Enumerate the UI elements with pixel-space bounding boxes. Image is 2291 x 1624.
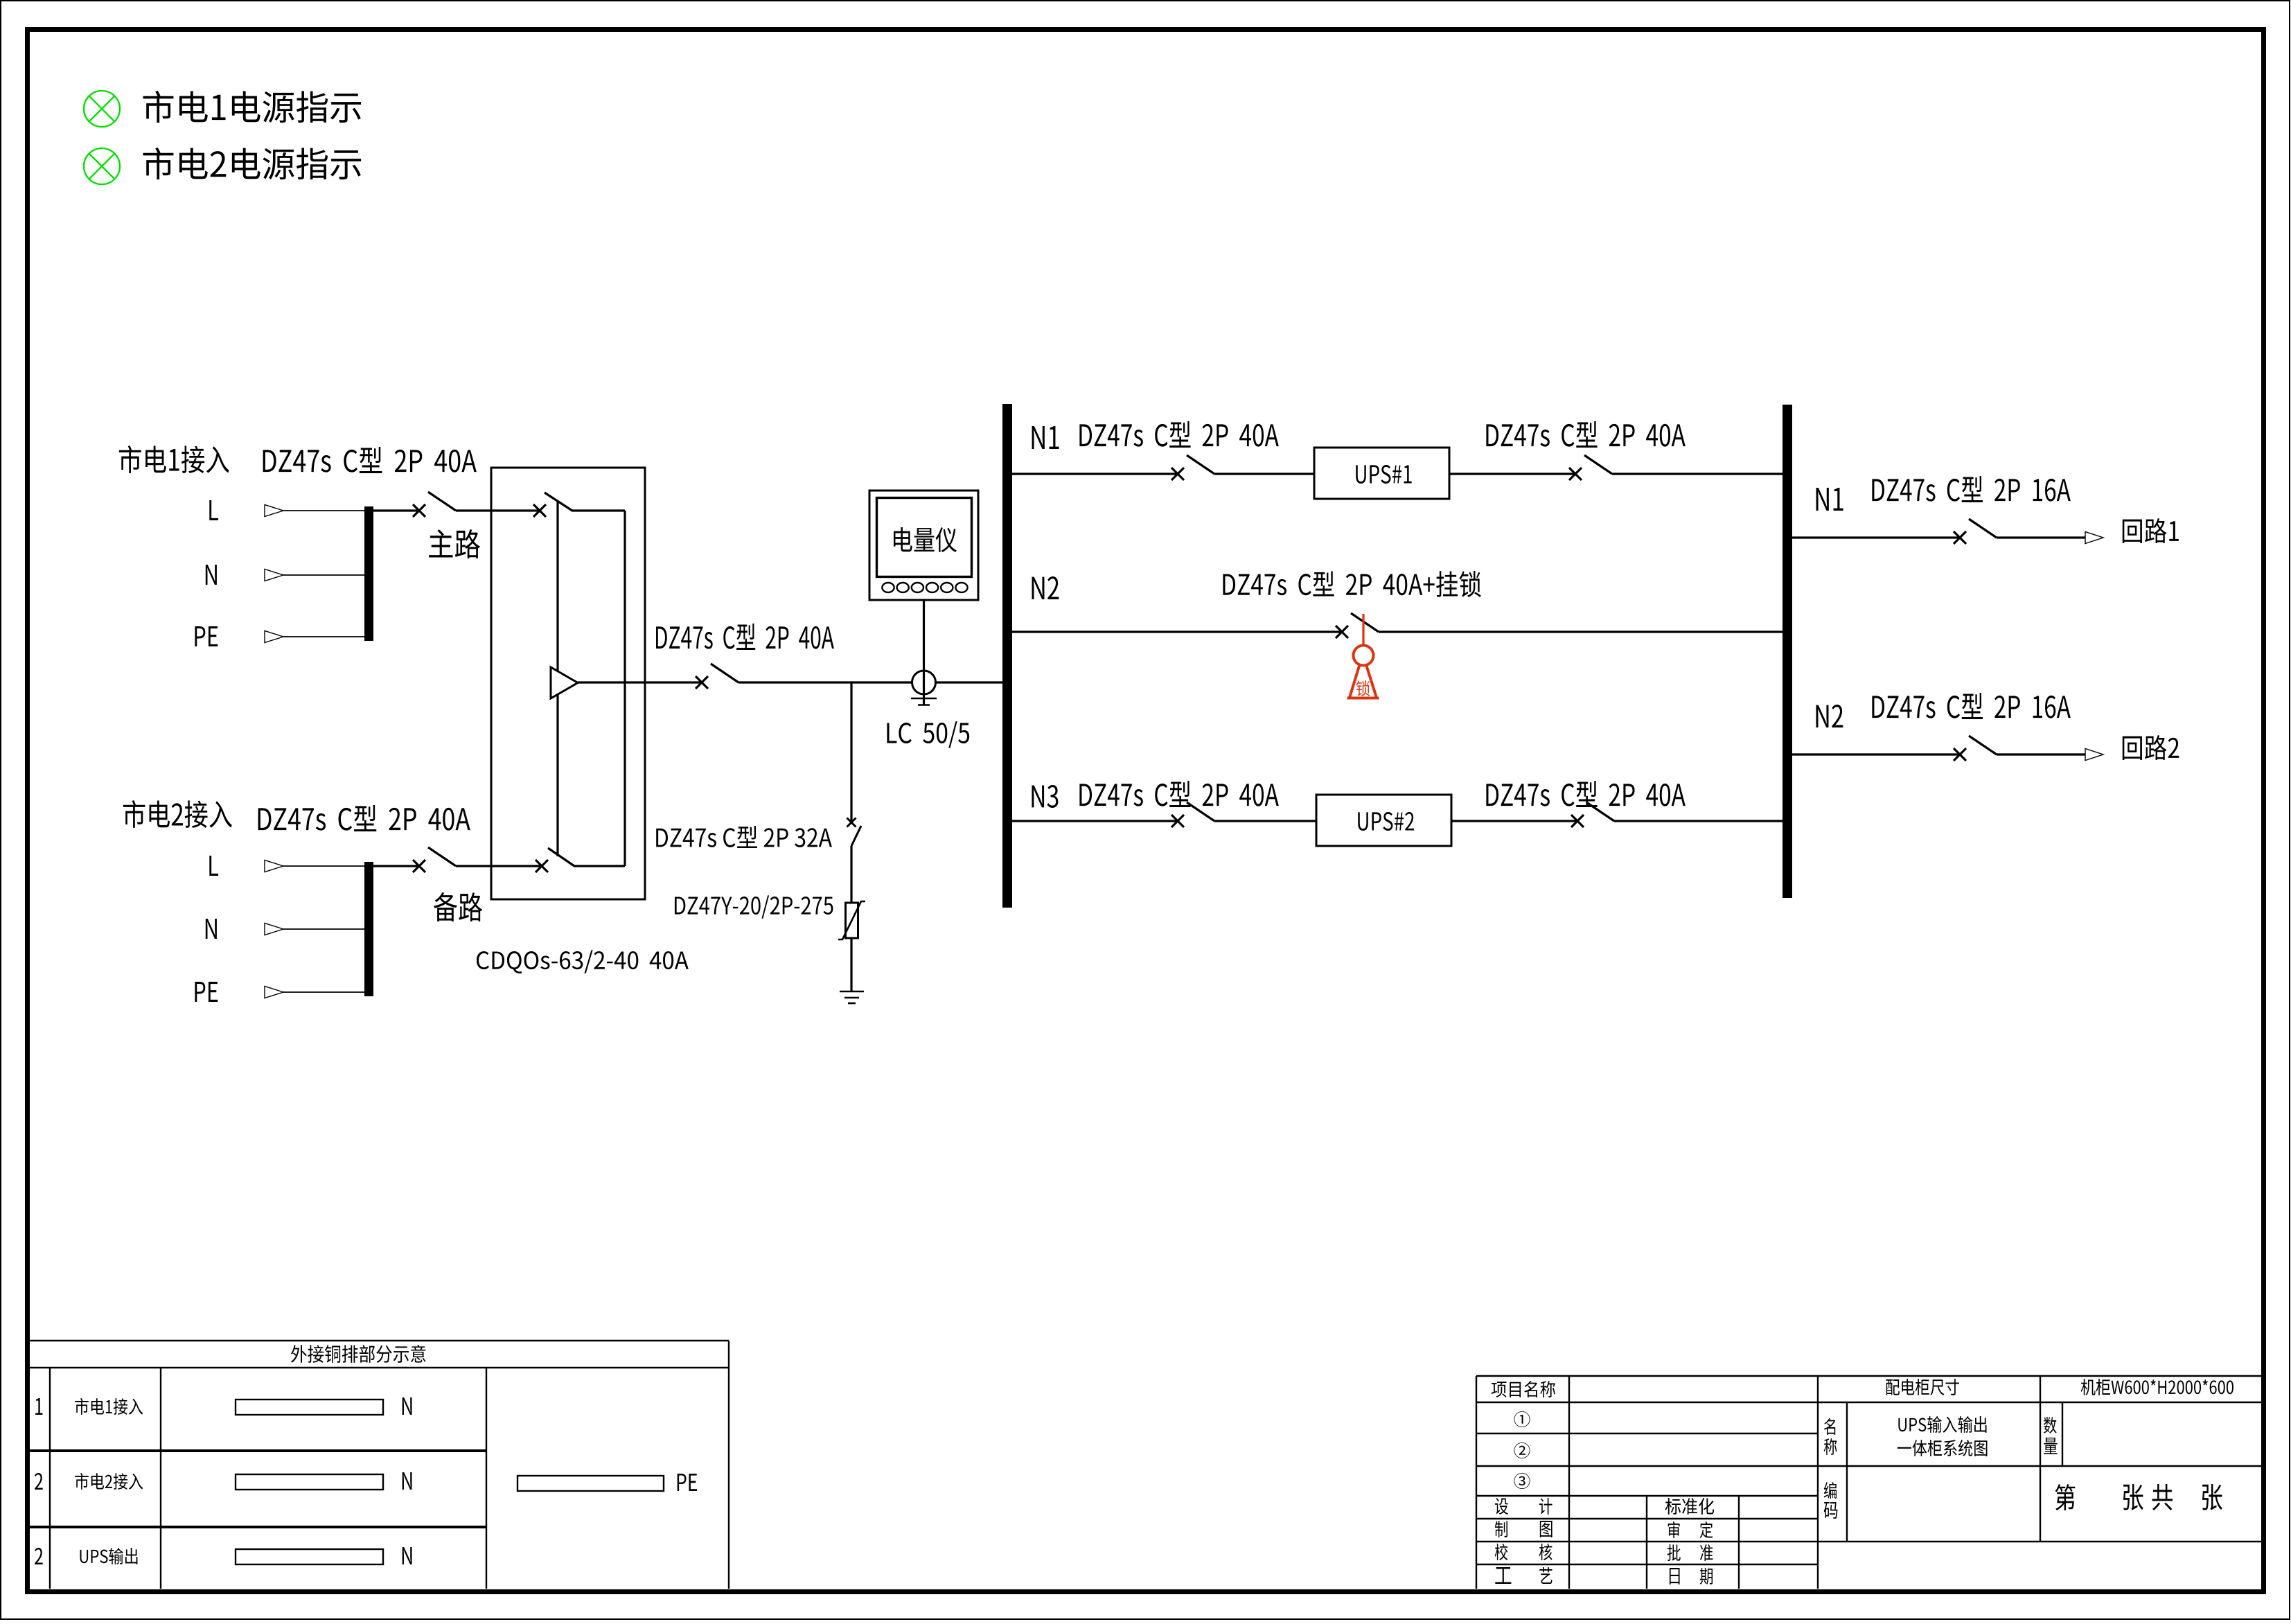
table row2 index 2 <box>35 1473 43 1490</box>
wire QF9 to output bus <box>1614 820 1783 822</box>
title value 一体柜系统图 <box>1898 1440 1988 1456</box>
value label DZ47s C型 2P 40A (QF2) <box>258 805 470 831</box>
title label 审定 <box>1668 1521 1680 1538</box>
breaker QF11 contact and blade <box>1954 736 1997 761</box>
indicator lamp HL2 (circle with X) <box>84 148 120 184</box>
label 回路1 <box>2123 518 2179 543</box>
label N (input2) <box>206 919 217 939</box>
label 备路 <box>434 892 482 921</box>
node N1 label <box>1032 426 1059 449</box>
input terminal arrow PE2 <box>265 987 283 998</box>
surge protective device FV1 (varistor) <box>838 901 865 939</box>
label UPS#2 <box>1358 812 1414 831</box>
label UPS#1 <box>1356 465 1411 484</box>
table row3 name UPS输出 <box>80 1548 137 1564</box>
input terminal arrow N2 <box>265 924 283 935</box>
value label DZ47s C型 2P 40A+挂锁 (QF7) <box>1223 571 1480 597</box>
title label 标准化 <box>1665 1498 1715 1515</box>
label 主路 <box>429 529 480 558</box>
table header 外接铜排部分示意 <box>291 1345 425 1363</box>
value label DZ47s C型 2P 16A (QF11) <box>1872 693 2070 719</box>
breaker QF5 contact and blade <box>1171 455 1214 480</box>
transfer switch output triangle <box>551 667 578 698</box>
title label 日期 <box>1670 1568 1680 1585</box>
power meter buttons <box>882 583 967 592</box>
label L (input1) <box>209 500 218 520</box>
input terminal arrow PE1 <box>265 631 283 643</box>
title label 编码 <box>1824 1482 1837 1499</box>
table PE busbar <box>518 1476 664 1491</box>
breaker QF7 contact and blade <box>1336 613 1379 638</box>
wire QF1 to transfer switch <box>456 509 540 511</box>
title label 校核 <box>1495 1544 1508 1560</box>
title label 名称 <box>1824 1418 1835 1435</box>
label PE (input2) <box>195 982 218 1002</box>
wire QF10 to outgoing arrow 1 <box>1997 536 2085 538</box>
breaker QF6 contact and blade <box>1569 455 1612 480</box>
table PE label <box>678 1474 697 1491</box>
title circled 3 <box>1514 1473 1530 1489</box>
input terminal arrow L2 <box>265 860 283 872</box>
table row3 N label <box>403 1547 412 1564</box>
value label DZ47s C型 2P 40A (QF5) <box>1079 421 1278 448</box>
wire lower blade to inner link <box>574 865 625 867</box>
wire meter to CT <box>923 600 925 705</box>
breaker QF3 contact and blade <box>696 664 738 689</box>
title circled 2 <box>1514 1442 1530 1458</box>
title label 制图 <box>1495 1521 1507 1537</box>
CT ground bar 1 <box>911 698 937 700</box>
transfer switch upper blade <box>545 493 572 511</box>
table row2 N busbar <box>236 1474 383 1490</box>
table row1 index 1 <box>35 1398 42 1415</box>
value label DZ47s C型 2P 32A (QF4) <box>656 826 832 848</box>
label 回路2 <box>2123 735 2179 760</box>
wire QF11 to outgoing arrow 2 <box>1997 753 2085 755</box>
wire PE1 to terminal bar <box>283 636 365 637</box>
label N (input1) <box>206 565 217 585</box>
breaker QF8 contact and blade <box>1171 802 1214 827</box>
title label 配电柜尺寸 <box>1886 1379 1959 1395</box>
breaker QF1 contact and blade <box>413 492 456 517</box>
wire bar1 to QF1 <box>373 509 419 511</box>
title value UPS输入输出 <box>1898 1416 1986 1433</box>
wire QF6 to output bus <box>1612 473 1783 475</box>
padlock hanger (red) <box>1362 614 1364 646</box>
wire output bus to QF11 <box>1792 753 1960 755</box>
label PE (input1) <box>195 626 218 646</box>
UPS#1 box <box>1314 448 1449 499</box>
wire bus to QF8 <box>1012 820 1178 822</box>
title label 工艺 <box>1495 1567 1511 1584</box>
title label 设计 <box>1495 1498 1508 1515</box>
label 市电2接入 <box>123 800 232 828</box>
value label DZ47s C型 2P 40A (QF6) <box>1486 421 1685 448</box>
table row1 N label <box>403 1397 412 1415</box>
wire QF7 to output bus <box>1379 630 1783 633</box>
breaker QF9 contact and blade <box>1571 802 1614 827</box>
padlock shackle (red circle) <box>1354 646 1374 666</box>
ground symbol (SPD) <box>840 991 864 1003</box>
node N1 (output) label <box>1816 488 1843 511</box>
mechanism tie bar <box>556 502 558 856</box>
outgoing arrow circuit 2 <box>2085 749 2103 761</box>
label L (input2) <box>209 856 218 876</box>
input terminal arrow N1 <box>265 570 283 581</box>
title label 第...张共...张 <box>2055 1484 2075 1510</box>
value label DZ47s C型 2P 16A (QF10) <box>1872 476 2070 502</box>
bus bar output side <box>1783 405 1792 898</box>
label 市电2电源指示 <box>143 148 361 179</box>
wire N2 to terminal bar <box>283 928 365 930</box>
value label DZ47s C型 2P 40A (QF3) <box>656 624 834 650</box>
value label DZ47s C型 2P 40A (QF9) <box>1486 781 1685 807</box>
label 电量仪 <box>894 527 957 552</box>
wire QF5 to UPS#1 <box>1214 473 1314 475</box>
wire UPS#2 to QF9 <box>1451 820 1577 822</box>
wire QF8 to UPS#2 <box>1214 820 1316 822</box>
title value 机柜W600*H2000*600 <box>2081 1379 2233 1395</box>
current transformer LC 50/5 (circle) <box>912 671 936 694</box>
transfer switch standby contact (X) lower <box>536 860 548 872</box>
wire bus to QF5 <box>1012 473 1178 475</box>
power meter box <box>869 491 978 600</box>
UPS#2 box <box>1316 795 1451 846</box>
wire junction down to QF4 <box>850 682 852 822</box>
table row2 N label <box>403 1472 412 1490</box>
terminal bar (mains 2) <box>364 862 373 996</box>
padlock label 锁 (red) <box>1356 680 1370 696</box>
inner link vertical wire <box>623 511 626 866</box>
copper bar table grid <box>28 1341 729 1589</box>
node N2 (output) label <box>1816 705 1843 727</box>
bus bar N (input side) <box>1002 404 1012 908</box>
breaker QF4 (vertical) contact and blade <box>847 818 862 847</box>
table row1 N busbar <box>236 1400 383 1415</box>
wire QF4 to SPD <box>850 846 852 903</box>
wire bus to QF7 <box>1012 630 1342 633</box>
label CDQ0s-63/2-40 40A <box>477 950 689 973</box>
wire transfer output to QF3 <box>578 681 702 683</box>
outgoing arrow circuit 1 <box>2085 532 2103 544</box>
breaker QF2 contact and blade <box>413 847 456 872</box>
wire output bus to QF10 <box>1792 536 1960 538</box>
terminal bar (mains 1) <box>364 506 373 641</box>
title label 批准 <box>1668 1544 1681 1561</box>
wire N1 to terminal bar <box>283 574 365 576</box>
wire QF2 to transfer switch <box>456 865 542 867</box>
wire upper blade to inner link <box>572 509 625 511</box>
table row3 index 2 <box>35 1548 43 1564</box>
title circled 1 <box>1514 1411 1530 1427</box>
node N2 label <box>1032 576 1059 599</box>
wire UPS#1 to QF6 <box>1449 473 1575 475</box>
padlock body (red trapezoid) <box>1347 665 1379 698</box>
table row3 N busbar <box>236 1549 383 1564</box>
title block grid <box>1476 1376 2261 1589</box>
table row2 name 市电2接入 <box>75 1473 143 1490</box>
value label DZ47s C型 2P 40A (QF1) <box>263 447 477 473</box>
breaker QF10 contact and blade <box>1954 519 1997 544</box>
wire QF3 to CT <box>738 681 912 683</box>
node N3 label <box>1032 785 1058 808</box>
wire SPD to ground <box>850 938 852 991</box>
title label 数量 <box>2044 1417 2057 1433</box>
input terminal arrow L1 <box>265 505 283 517</box>
transfer switch enclosure box <box>491 468 645 899</box>
table row1 name 市电1接入 <box>75 1398 143 1415</box>
wire L1 to terminal bar <box>283 510 365 511</box>
transfer switch main contact (X) upper <box>533 504 546 517</box>
value label DZ47s C型 2P 40A (QF8) <box>1079 781 1278 807</box>
power meter screen <box>877 498 972 577</box>
value label LC 50/5 <box>887 721 969 748</box>
wire L2 to terminal bar <box>283 865 365 867</box>
wire CT to bus N <box>936 681 1002 683</box>
title label 项目名称 <box>1492 1381 1555 1397</box>
transfer switch lower blade <box>548 848 574 866</box>
wire PE2 to terminal bar <box>283 991 365 993</box>
indicator lamp HL1 (circle with X) <box>84 91 120 127</box>
label 市电1电源指示 <box>143 91 361 123</box>
label 市电1接入 <box>119 445 229 473</box>
value label DZ47Y-20/2P-275 (FV1) <box>675 895 833 918</box>
wire bar2 to QF2 <box>373 865 419 867</box>
CT ground bar 2 <box>918 704 930 706</box>
